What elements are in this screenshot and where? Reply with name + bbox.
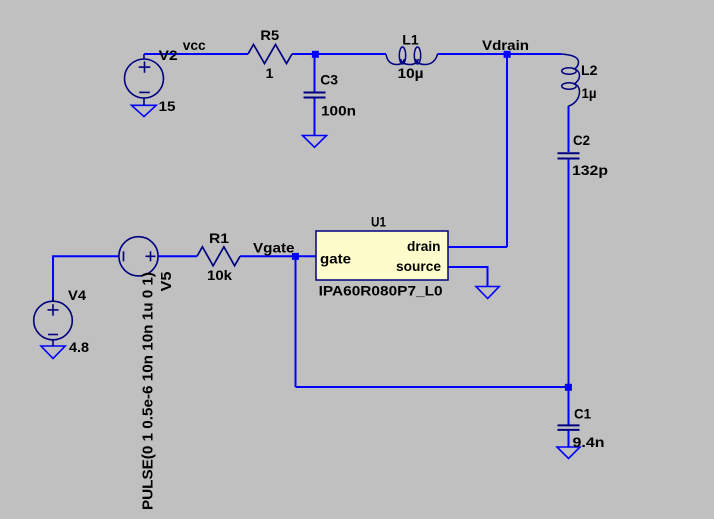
ground below V2 [132,105,157,116]
ground below V4 [41,346,65,359]
svg-text:Vdrain: Vdrain [482,37,529,53]
op-amp U1 subckt box [316,231,448,280]
voltage source V4 [34,297,73,346]
wire R5 to L1 [292,53,386,55]
svg-text:R1: R1 [209,230,229,246]
junction node Vgate [292,253,299,260]
svg-text:9.4n: 9.4n [573,434,605,450]
svg-text:V5: V5 [158,272,175,292]
svg-text:10k: 10k [207,267,232,283]
wire bottom rail [296,386,569,388]
svg-text:C2: C2 [573,132,590,148]
svg-text:drain: drain [407,238,441,254]
svg-text:PULSE(0 1 0.5e-6 10n 10n 1u 0: PULSE(0 1 0.5e-6 10n 10n 1u 0 1) [140,272,157,510]
wire V4 to V5 [53,256,119,301]
inductor L2 [561,54,580,106]
svg-text:L1: L1 [402,31,419,47]
svg-text:vcc: vcc [183,37,206,53]
svg-text:10µ: 10µ [398,65,424,81]
capacitor C1 [558,425,580,430]
resistor R5 [248,45,292,64]
wire V5 to R1 [158,255,197,257]
ground below C1 [557,447,580,459]
svg-text:15: 15 [159,98,176,114]
svg-text:Vgate: Vgate [253,240,295,256]
svg-text:V4: V4 [68,287,86,303]
wire R1 to gate [240,255,316,257]
svg-text:gate: gate [320,251,351,267]
resistor R1 [197,247,240,266]
voltage source V2 [125,54,164,105]
voltage source V5 [119,237,158,276]
wire junction to C1 [568,387,570,425]
svg-text:L2: L2 [581,62,598,78]
capacitor C3 [304,93,326,98]
wire source pin [448,267,488,287]
ground below C3 [303,136,327,148]
svg-text:1µ: 1µ [582,85,597,101]
wire drain pin [448,246,507,248]
wire Vdrain down to drain pin [506,54,508,247]
svg-text:source: source [396,258,441,274]
svg-text:C3: C3 [320,72,338,88]
wire C1 to ground [568,430,570,447]
junction node vcc/C3 [312,51,319,58]
svg-text:1: 1 [266,65,274,81]
svg-text:100n: 100n [321,102,356,118]
wire C2 to bottom junction [568,159,570,387]
svg-text:C1: C1 [574,405,591,421]
svg-text:IPA60R080P7_L0: IPA60R080P7_L0 [319,283,443,299]
inductor L1 [386,47,438,65]
wire V2 top to R5 [144,53,248,55]
svg-text:132p: 132p [572,162,608,178]
wire Vgate down [295,256,297,387]
wire C3 bottom [314,98,316,136]
wire L1 to L2 [438,53,562,55]
capacitor C2 [558,153,580,158]
svg-text:U1: U1 [371,214,386,230]
ground at U1 source [476,287,499,299]
wire L2 to C2 [568,106,570,152]
svg-text:R5: R5 [260,27,279,43]
junction node Vdrain [504,51,511,58]
svg-text:4.8: 4.8 [69,339,89,355]
svg-text:V2: V2 [159,47,178,63]
wire C3 top [314,54,316,92]
junction node bottom [565,384,572,391]
